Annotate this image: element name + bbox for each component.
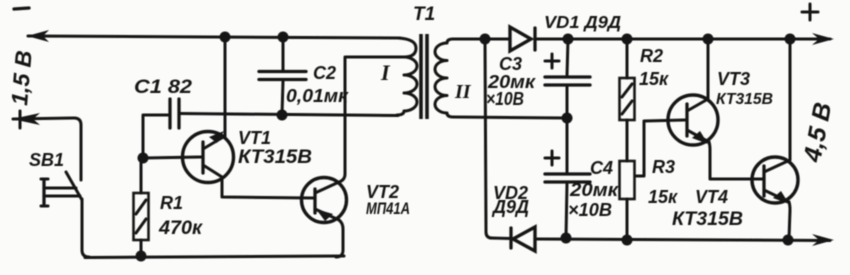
transistor VT4 [752, 40, 798, 239]
svg-text:R3: R3 [652, 157, 675, 177]
wire top rail right section [485, 38, 830, 41]
transformer core [421, 34, 427, 119]
svg-text:R2: R2 [640, 46, 663, 66]
resistor R3 trimmer [620, 120, 686, 238]
svg-text:×10В: ×10В [568, 200, 612, 220]
wire C1 right plate to mid line [180, 114, 398, 116]
svg-text:15к: 15к [648, 187, 678, 207]
svg-text:0,01мк: 0,01мк [286, 86, 349, 106]
arrow lower-left [12, 113, 40, 125]
node secondary top [480, 34, 491, 45]
node R3 bottom [622, 235, 633, 246]
plus mark top right [802, 4, 818, 20]
diode VD1 [510, 27, 535, 51]
node mid C3/C4 [562, 113, 573, 124]
svg-text:С3: С3 [499, 54, 522, 74]
node C2 bottom [277, 110, 288, 121]
svg-text:VT4: VT4 [695, 187, 728, 207]
node VT1 collector on rail [220, 32, 231, 43]
arrow top-left [27, 30, 49, 42]
svg-text:С4: С4 [590, 158, 613, 178]
svg-text:SB1: SB1 [29, 150, 64, 170]
svg-text:С1 82: С1 82 [134, 77, 192, 98]
capacitor C4 [545, 118, 590, 238]
wire from lower-left arrow to SB1 [13, 118, 81, 180]
node R1 bottom [136, 251, 147, 262]
svg-text:II: II [454, 81, 472, 103]
capacitor C2 [259, 37, 306, 115]
diode VD2 [511, 227, 535, 251]
wire bottom-left rail [85, 256, 344, 258]
plus polarity tick on lower-left arrow [19, 111, 22, 128]
svg-text:С2: С2 [313, 63, 336, 83]
node VT4 emitter [783, 235, 794, 246]
svg-text:VT3: VT3 [717, 69, 750, 89]
capacitor C1 [170, 99, 179, 128]
transistor VT1 [183, 40, 315, 198]
svg-text:Т1: Т1 [413, 4, 435, 25]
svg-text:470к: 470к [158, 218, 203, 239]
transistor VT2 [302, 120, 347, 257]
switch SB1 [41, 172, 89, 257]
resistor R1 [134, 163, 149, 255]
svg-text:КТ315В: КТ315В [238, 147, 312, 168]
svg-text:VD1 Д9Д: VD1 Д9Д [544, 12, 621, 32]
svg-text:1,5 В: 1,5 В [6, 49, 37, 106]
node C4 bottom [561, 233, 572, 244]
transformer T1 secondary winding II [435, 39, 567, 118]
capacitor C3 [545, 39, 590, 117]
node R2 top [622, 34, 633, 45]
wire base node up to C1 [143, 115, 168, 158]
svg-text:КТ315В: КТ315В [672, 209, 743, 230]
plus mark C4 [545, 151, 559, 165]
resistor R2 [620, 39, 635, 161]
node VT1 base [138, 153, 149, 164]
plus mark C3 [545, 54, 559, 68]
svg-text:МП41А: МП41А [366, 199, 410, 218]
svg-text:×10В: ×10В [486, 89, 524, 109]
node C2 top [278, 32, 289, 43]
svg-text:15к: 15к [639, 69, 669, 89]
svg-text:Д9Д: Д9Д [491, 197, 529, 217]
svg-text:КТ315В: КТ315В [716, 91, 773, 108]
svg-text:20мк: 20мк [569, 180, 619, 200]
svg-text:R1: R1 [160, 193, 183, 213]
node C3 top [563, 34, 574, 45]
arrow bottom-right output [812, 234, 834, 246]
arrow top-right output [812, 33, 834, 45]
node VT3 collector [703, 34, 714, 45]
svg-text:I: I [380, 60, 391, 85]
node VT4 collector [785, 34, 796, 45]
minus polarity mark top-left [14, 8, 29, 9]
wire top rail left section [28, 36, 400, 38]
svg-text:VT1: VT1 [238, 128, 271, 148]
wire bottom rail right section [490, 238, 830, 241]
wire VT1 base lead [143, 157, 201, 158]
wire secondary top down to bottom rail [485, 39, 492, 238]
transistor VT3 [668, 40, 763, 179]
transformer T1 primary winding I with tap [345, 38, 417, 120]
